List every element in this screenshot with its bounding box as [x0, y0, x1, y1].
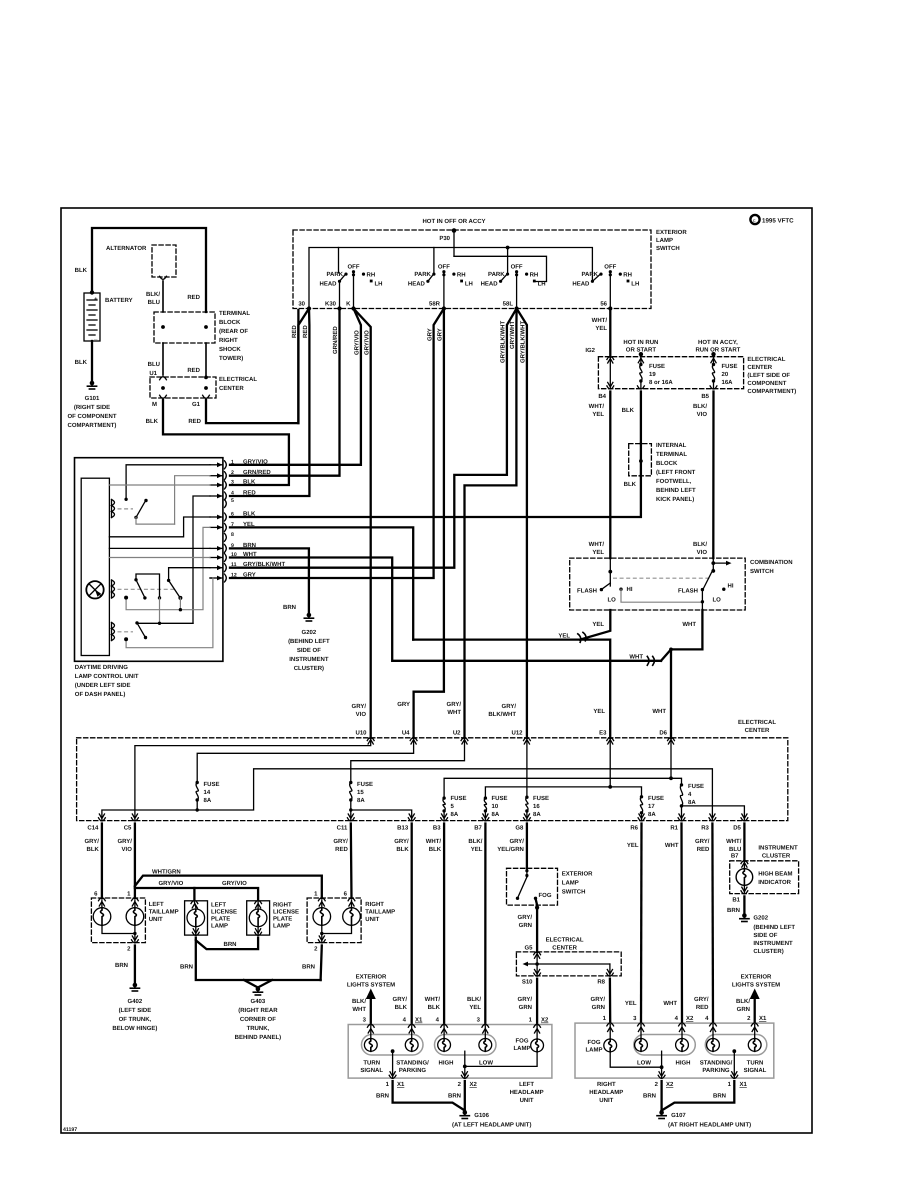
svg-text:WHT: WHT	[447, 709, 461, 716]
exit R3	[710, 814, 715, 819]
svg-text:OF COMPONENT: OF COMPONENT	[68, 413, 117, 420]
svg-text:BLK: BLK	[395, 1004, 408, 1011]
svg-text:R6: R6	[630, 825, 638, 832]
svg-text:LIGHTS SYSTEM: LIGHTS SYSTEM	[347, 982, 395, 989]
svg-text:GRN: GRN	[519, 922, 532, 929]
wire relay K1 arm to pin 2	[136, 517, 175, 524]
svg-text:CENTER: CENTER	[747, 364, 772, 371]
relay K2 pole A	[134, 578, 137, 581]
svg-text:B7: B7	[474, 825, 482, 832]
svg-text:GRY/: GRY/	[518, 996, 533, 1003]
svg-text:LIGHTS SYSTEM: LIGHTS SYSTEM	[732, 982, 780, 989]
pin 7 YEL	[225, 523, 227, 531]
svg-text:OFF: OFF	[604, 264, 616, 271]
svg-text:HOT IN ACCY,: HOT IN ACCY,	[698, 339, 738, 346]
internal wire E3 bus	[609, 740, 611, 787]
svg-text:GRN/RED: GRN/RED	[332, 326, 339, 354]
wire BRN pin 9 to ground	[230, 548, 309, 612]
svg-text:GRY/VIO: GRY/VIO	[354, 330, 361, 355]
wire YEL daytime pin 7 branch	[230, 527, 413, 639]
svg-text:ELECTRICAL: ELECTRICAL	[747, 356, 785, 363]
svg-text:TAILLAMP: TAILLAMP	[149, 909, 179, 916]
relay K2 coil	[111, 580, 113, 598]
svg-text:GRY/: GRY/	[117, 838, 132, 845]
svg-text:16A: 16A	[722, 379, 734, 386]
wire RED	[205, 343, 207, 377]
svg-text:RED: RED	[335, 846, 348, 853]
svg-text:R3: R3	[701, 825, 709, 832]
wire GRY/YEL/GRN G8 to fog switch	[526, 824, 528, 869]
internal bus wire	[309, 248, 592, 309]
wire GRY/VIO C5 to left taillamp	[134, 824, 136, 899]
svg-text:SWITCH: SWITCH	[656, 245, 680, 252]
svg-text:LICENSE: LICENSE	[211, 909, 237, 916]
svg-text:RED: RED	[302, 325, 309, 338]
svg-text:GRY/VIO: GRY/VIO	[243, 458, 268, 465]
svg-text:BLK/: BLK/	[468, 838, 482, 845]
svg-text:BLK/WHT: BLK/WHT	[488, 711, 516, 718]
svg-text:RED: RED	[697, 846, 710, 853]
bus tap to switch 1 PARK	[338, 248, 340, 273]
left license plate lamp box	[185, 901, 208, 935]
left dimmer switch	[609, 558, 611, 586]
svg-text:HEADLAMP: HEADLAMP	[510, 1089, 544, 1096]
svg-text:BLK: BLK	[243, 479, 256, 486]
exit B3	[442, 814, 447, 819]
svg-text:C5: C5	[124, 825, 132, 832]
svg-text:RH: RH	[457, 272, 466, 279]
wire WHT/YEL from 56 to IG2	[609, 309, 611, 357]
svg-text:BELOW HINGE): BELOW HINGE)	[112, 1025, 157, 1032]
wire GRY from 58R to pin 12	[230, 309, 444, 579]
svg-text:BRN: BRN	[283, 604, 296, 611]
terminal B4	[607, 386, 614, 389]
pin 11 GRY/BLK/WHT	[225, 564, 227, 572]
svg-text:WHT: WHT	[665, 842, 679, 849]
svg-text:(LEFT SIDE OF: (LEFT SIDE OF	[747, 372, 790, 379]
svg-text:RH: RH	[367, 272, 376, 279]
svg-text:G402: G402	[128, 998, 143, 1005]
svg-text:STANDING/: STANDING/	[396, 1060, 429, 1067]
standing / turn stadium right	[705, 1035, 767, 1056]
svg-text:BRN: BRN	[448, 1093, 461, 1100]
svg-text:19: 19	[649, 371, 656, 378]
exit B1	[741, 891, 748, 894]
pin 4 RED	[225, 492, 227, 500]
wire GRY from 58R to U4	[414, 309, 444, 738]
svg-text:GRY/VIO: GRY/VIO	[159, 880, 184, 887]
svg-text:G1: G1	[192, 401, 201, 408]
svg-text:BLK/: BLK/	[352, 998, 366, 1005]
svg-text:YEL: YEL	[471, 846, 483, 853]
svg-text:G8: G8	[515, 825, 524, 832]
right high beam bulb	[681, 1025, 683, 1039]
svg-text:56: 56	[600, 301, 607, 308]
svg-text:GRY/: GRY/	[333, 838, 348, 845]
wire BLK/YEL B7 to left headlamp	[484, 824, 486, 1025]
svg-text:ALTERNATOR: ALTERNATOR	[106, 245, 147, 252]
svg-text:B13: B13	[397, 825, 409, 832]
svg-text:RIGHT: RIGHT	[365, 901, 384, 908]
svg-text:(AT LEFT HEADLAMP UNIT): (AT LEFT HEADLAMP UNIT)	[452, 1122, 531, 1129]
svg-text:BLK: BLK	[429, 846, 442, 853]
wire RED right drop to pin 4	[230, 309, 309, 497]
high/low common with fog	[464, 1051, 466, 1066]
border frame	[61, 208, 812, 1133]
svg-text:BRN: BRN	[302, 964, 315, 971]
svg-text:HEADLAMP: HEADLAMP	[589, 1089, 623, 1096]
svg-text:X2: X2	[686, 1015, 694, 1022]
svg-text:BLK: BLK	[243, 511, 256, 518]
internal module rectangle	[81, 478, 109, 655]
turn signal / parking stadium	[362, 1035, 424, 1056]
svg-text:UNIT: UNIT	[599, 1097, 613, 1104]
svg-text:BRN: BRN	[713, 1093, 726, 1100]
svg-text:HI: HI	[728, 583, 734, 590]
relay K3 coil	[111, 623, 113, 641]
left high beam bulb	[443, 1026, 445, 1038]
fog switch contacts	[526, 868, 528, 877]
svg-text:8A: 8A	[492, 811, 500, 818]
svg-text:BLK: BLK	[396, 846, 409, 853]
svg-text:CENTER: CENTER	[219, 385, 244, 392]
svg-text:INSTRUMENT: INSTRUMENT	[289, 656, 329, 663]
svg-text:(RIGHT REAR: (RIGHT REAR	[238, 1007, 278, 1014]
svg-text:CENTER: CENTER	[552, 945, 577, 952]
wire GRN/RED from K30 to pin 2	[230, 309, 340, 476]
svg-text:G5: G5	[524, 945, 533, 952]
pin 8	[225, 533, 227, 541]
svg-text:BRN: BRN	[727, 907, 740, 914]
svg-text:PARK: PARK	[414, 271, 431, 278]
svg-text:LO: LO	[713, 597, 722, 604]
svg-text:RED: RED	[187, 367, 200, 374]
svg-text:LICENSE: LICENSE	[273, 909, 299, 916]
svg-text:R8: R8	[597, 979, 605, 986]
svg-text:VIO: VIO	[356, 711, 367, 718]
svg-text:LAMP: LAMP	[586, 1047, 603, 1054]
wire WHT/YEL to combination switch	[609, 392, 611, 559]
svg-text:TURN: TURN	[747, 1060, 764, 1067]
exit C11	[348, 814, 353, 819]
svg-text:C11: C11	[337, 825, 348, 832]
right turn signal bulb	[754, 1025, 756, 1039]
internal wire U10 to C5	[135, 740, 371, 821]
fuse 20	[711, 352, 715, 356]
svg-text:TOWER): TOWER)	[219, 355, 243, 362]
svg-text:U10: U10	[355, 730, 367, 737]
wire relay contacts bus	[137, 622, 193, 624]
svg-text:FLASH: FLASH	[577, 587, 597, 594]
wire pin 7 path	[126, 527, 210, 609]
svg-text:GRY/VIO: GRY/VIO	[364, 330, 371, 355]
svg-text:LH: LH	[375, 280, 383, 287]
wire IG2 pass-through	[609, 357, 611, 389]
svg-text:BLK/: BLK/	[146, 291, 160, 298]
svg-text:WHT: WHT	[629, 654, 643, 661]
svg-text:FUSE: FUSE	[451, 795, 467, 802]
svg-text:FUSE: FUSE	[492, 795, 508, 802]
svg-text:SWITCH: SWITCH	[562, 889, 586, 896]
svg-text:BLK/: BLK/	[693, 541, 707, 548]
svg-text:WHT: WHT	[243, 551, 257, 558]
svg-text:WHT/: WHT/	[726, 838, 742, 845]
internal wire U4 to fuse 14	[197, 740, 413, 782]
svg-text:GRY: GRY	[437, 328, 444, 341]
terminal block (rear of right shock tower)	[154, 312, 215, 343]
right headlamp unit box	[575, 1023, 774, 1078]
wire BLK/BLU alternator to terminal block	[162, 281, 164, 312]
svg-text:P30: P30	[439, 235, 450, 242]
svg-text:HEAD: HEAD	[408, 280, 426, 287]
svg-text:G403: G403	[251, 998, 266, 1005]
svg-text:PLATE: PLATE	[273, 916, 292, 923]
svg-text:GRY/: GRY/	[393, 996, 408, 1003]
wire YEL to E3	[413, 640, 610, 738]
svg-text:17: 17	[648, 803, 655, 810]
wire WHT/BLK B3 to left headlamp	[443, 824, 445, 1025]
svg-text:(BEHIND LEFT: (BEHIND LEFT	[288, 638, 330, 645]
alternator	[152, 245, 176, 277]
svg-text:C14: C14	[87, 825, 99, 832]
svg-text:8A: 8A	[451, 811, 459, 818]
wire BRN to G202	[743, 896, 745, 913]
svg-text:COMPARTMENT): COMPARTMENT)	[68, 422, 117, 429]
left turn signal bulb	[370, 1026, 372, 1038]
relay K1 contact arm	[124, 498, 127, 501]
wire module to pin 3	[109, 484, 210, 486]
right license plate lamp box	[247, 901, 270, 935]
fuse 14 output to R3	[197, 769, 712, 821]
svg-text:X2: X2	[666, 1081, 674, 1088]
svg-text:GRY/: GRY/	[694, 996, 709, 1003]
svg-text:EXTERIOR: EXTERIOR	[562, 871, 593, 878]
bus tap to switch 3 PARK	[507, 248, 509, 274]
svg-text:B1: B1	[732, 897, 740, 904]
high beam indicator bulb	[743, 861, 745, 869]
svg-text:HEAD: HEAD	[572, 280, 590, 287]
exterior lamp switch box	[293, 230, 651, 309]
svg-text:GRY/WHT: GRY/WHT	[509, 321, 516, 349]
svg-text:GRY/: GRY/	[509, 838, 524, 845]
svg-text:G106: G106	[474, 1112, 489, 1119]
fuse 15 output to C11 and B13	[350, 800, 352, 821]
svg-text:LOW: LOW	[479, 1060, 493, 1067]
svg-text:FUSE: FUSE	[533, 795, 549, 802]
svg-text:CENTER: CENTER	[745, 727, 770, 734]
svg-text:10: 10	[231, 552, 237, 558]
svg-text:G107: G107	[671, 1112, 686, 1119]
fuse 4	[680, 783, 683, 786]
left taillamp unit box	[91, 898, 145, 943]
svg-text:LH: LH	[538, 280, 546, 287]
battery B1	[90, 290, 94, 294]
svg-text:X1: X1	[415, 1017, 423, 1024]
svg-text:KICK PANEL): KICK PANEL)	[656, 496, 694, 503]
pin 6 BLK	[225, 513, 227, 521]
svg-text:S10: S10	[522, 979, 533, 986]
fog exterior lamp switch box	[507, 868, 558, 905]
svg-text:UNIT: UNIT	[520, 1097, 534, 1104]
svg-text:BLK: BLK	[75, 267, 88, 274]
svg-text:BEHIND PANEL): BEHIND PANEL)	[235, 1034, 282, 1041]
left license plate lamp bulb	[187, 909, 205, 927]
svg-text:PARKING: PARKING	[702, 1067, 730, 1074]
left taillamp common	[102, 925, 135, 933]
right low beam bulb	[640, 1025, 642, 1039]
low / high stadium right	[634, 1035, 696, 1056]
svg-text:GRY/BLK/WHT: GRY/BLK/WHT	[520, 321, 527, 363]
svg-text:TERMINAL: TERMINAL	[656, 451, 687, 458]
svg-text:ELECTRICAL: ELECTRICAL	[219, 376, 257, 383]
svg-text:GRN/RED: GRN/RED	[243, 469, 271, 476]
svg-text:BLK: BLK	[75, 359, 88, 366]
daytime driving lamp control unit box	[75, 458, 223, 662]
svg-text:RUN OR START: RUN OR START	[695, 347, 740, 354]
svg-text:15: 15	[357, 789, 364, 796]
WHT inline connector	[647, 656, 654, 665]
svg-text:LAMP CONTROL UNIT: LAMP CONTROL UNIT	[75, 673, 139, 680]
svg-text:BRN: BRN	[180, 964, 193, 971]
svg-text:HEAD: HEAD	[481, 280, 499, 287]
exit C5	[132, 814, 137, 819]
svg-text:5: 5	[231, 498, 234, 504]
svg-text:(LEFT FRONT: (LEFT FRONT	[656, 469, 696, 476]
svg-text:(AT RIGHT HEADLAMP UNIT): (AT RIGHT HEADLAMP UNIT)	[668, 1122, 751, 1129]
wire GRY/RED R3 to right headlamp	[711, 824, 714, 1024]
svg-text:E3: E3	[599, 730, 607, 737]
ground G107	[659, 1110, 664, 1115]
svg-text:HOT IN OFF OR ACCY: HOT IN OFF OR ACCY	[422, 218, 485, 225]
svg-text:STANDING/: STANDING/	[700, 1060, 733, 1067]
wire pin 4 feed	[193, 496, 210, 623]
wire WHT to daytime pin 10	[230, 558, 661, 661]
svg-text:YEL: YEL	[592, 549, 604, 556]
svg-text:PARKING: PARKING	[399, 1067, 427, 1074]
svg-text:GRY/: GRY/	[447, 701, 462, 708]
ground G202 (instrument cluster)	[742, 913, 747, 918]
wire pin 11 path	[169, 568, 210, 581]
svg-text:BLOCK: BLOCK	[656, 460, 678, 467]
svg-text:12: 12	[231, 573, 237, 579]
svg-text:K30: K30	[325, 301, 337, 308]
wire GRY/RED C11 to right taillamp	[350, 824, 353, 899]
svg-text:+: +	[94, 296, 98, 303]
right taillamp common	[322, 925, 352, 933]
svg-text:TAILLAMP: TAILLAMP	[365, 909, 395, 916]
svg-text:WHT/: WHT/	[426, 838, 442, 845]
svg-text:BLK/: BLK/	[693, 403, 707, 410]
svg-text:11: 11	[231, 562, 237, 568]
wire battery negative	[91, 341, 93, 381]
svg-text:VIO: VIO	[122, 846, 133, 853]
wire GRY/GRN fog switch to G5	[536, 898, 538, 952]
right parking bulb	[712, 1025, 714, 1039]
fuse 16	[525, 796, 528, 799]
svg-text:TERMINAL: TERMINAL	[219, 310, 250, 317]
svg-text:G202: G202	[753, 915, 768, 922]
svg-text:LAMP: LAMP	[562, 880, 579, 887]
svg-text:WHT: WHT	[682, 621, 696, 628]
svg-text:GRY/: GRY/	[394, 838, 409, 845]
svg-text:YEL: YEL	[595, 325, 607, 332]
svg-text:OFF: OFF	[511, 264, 523, 271]
svg-text:WHT/: WHT/	[589, 541, 605, 548]
svg-text:GRN: GRN	[519, 1004, 532, 1011]
svg-text:U12: U12	[511, 730, 523, 737]
turn/parking common	[391, 1049, 395, 1053]
svg-text:INSTRUMENT: INSTRUMENT	[758, 845, 798, 852]
svg-text:X2: X2	[470, 1081, 478, 1088]
svg-text:HIGH: HIGH	[676, 1060, 691, 1067]
svg-text:FUSE: FUSE	[204, 781, 220, 788]
svg-text:FOG: FOG	[539, 892, 552, 899]
svg-text:FOOTWELL,: FOOTWELL,	[656, 478, 692, 485]
exit R1	[679, 814, 684, 819]
svg-text:X1: X1	[740, 1081, 748, 1088]
right standing/turn common	[732, 1049, 736, 1053]
YEL inline connector	[578, 632, 587, 642]
svg-text:GRN: GRN	[592, 1004, 605, 1011]
right dimmer switch	[712, 558, 714, 572]
right taillamp bulb B	[343, 908, 361, 926]
svg-text:LEFT: LEFT	[519, 1081, 534, 1088]
exit G8	[524, 814, 529, 819]
wire BLK/VIO to combination switch	[712, 392, 715, 559]
svg-text:BLU: BLU	[729, 846, 741, 853]
wire K30 to switch1	[339, 281, 341, 308]
left taillamp bulb B	[126, 908, 144, 926]
wire WHT R1 to right headlamp	[680, 824, 683, 1024]
svg-text:YEL: YEL	[592, 411, 604, 418]
wire BRN left taillamp to G402	[134, 946, 136, 984]
svg-text:RIGHT: RIGHT	[219, 337, 238, 344]
svg-text:RIGHT: RIGHT	[597, 1081, 616, 1088]
svg-text:SIGNAL: SIGNAL	[360, 1067, 383, 1074]
svg-text:LO: LO	[608, 597, 617, 604]
left parking bulb	[411, 1026, 413, 1038]
fuse 10	[484, 796, 487, 799]
exit S10	[536, 964, 538, 976]
svg-text:B7: B7	[731, 853, 739, 860]
terminal B5	[710, 386, 717, 389]
svg-text:3: 3	[231, 480, 234, 486]
svg-text:8A: 8A	[357, 797, 365, 804]
svg-text:30: 30	[298, 301, 305, 308]
right high/low common with fog	[661, 1051, 663, 1067]
left low beam bulb	[484, 1026, 486, 1038]
svg-text:SIDE OF: SIDE OF	[297, 647, 321, 654]
svg-text:GRY/BLK/WHT: GRY/BLK/WHT	[500, 321, 507, 363]
svg-text:LAMP: LAMP	[211, 923, 228, 930]
svg-text:OF DASH PANEL): OF DASH PANEL)	[75, 691, 126, 698]
svg-text:GRY: GRY	[243, 572, 256, 579]
svg-text:FUSE: FUSE	[722, 363, 738, 370]
svg-text:EXTERIOR: EXTERIOR	[356, 974, 387, 981]
left headlamp unit box	[348, 1025, 552, 1079]
svg-text:HI: HI	[627, 586, 633, 593]
svg-text:(LEFT SIDE: (LEFT SIDE	[119, 1007, 152, 1014]
fuse 4 feed	[671, 778, 682, 783]
wire GRY/BLK B13 to left headlamp	[411, 824, 413, 1025]
sensor symbol	[86, 581, 103, 598]
svg-text:BLK: BLK	[428, 1004, 441, 1011]
svg-text:PARK: PARK	[488, 271, 505, 278]
svg-text:BLU: BLU	[148, 361, 160, 368]
exit D5	[742, 814, 747, 819]
svg-text:BLOCK: BLOCK	[219, 319, 241, 326]
svg-text:(REAR OF: (REAR OF	[219, 328, 248, 335]
